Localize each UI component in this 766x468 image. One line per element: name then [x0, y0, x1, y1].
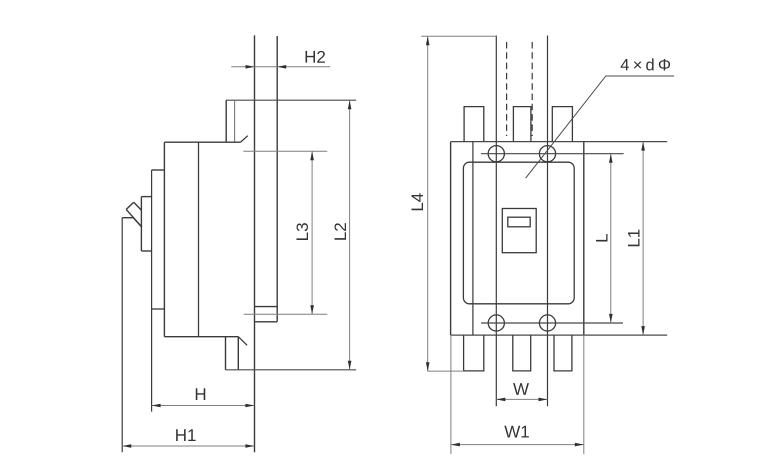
dimension H2 line: [231, 66, 330, 68]
top terminal stud 3: [552, 107, 572, 142]
hole center vertical line right (also W extension): [547, 36, 549, 407]
inner vertical rib line: [472, 142, 474, 336]
dimension W1 left extension line: [450, 335, 452, 454]
front cover top horizontal: [122, 217, 133, 219]
svg-text:H1: H1: [175, 426, 197, 445]
label H: [194, 385, 206, 404]
top terminal flange inner line: [234, 100, 236, 142]
hidden busbar dashed line left: [506, 42, 508, 136]
body top edge: [164, 141, 240, 143]
mounting hole top-right: [539, 146, 555, 162]
hidden busbar dashed line right: [531, 42, 533, 136]
label 4xdPhi: [620, 56, 674, 74]
handle window outer rectangle: [502, 209, 536, 253]
handle upper-left edge: [126, 202, 134, 209]
mounting hole bottom-left: [488, 315, 504, 331]
svg-text:H: H: [194, 385, 206, 404]
label H1: [175, 426, 197, 445]
dimension L1 line: [642, 142, 644, 336]
label L4 (rotated): [408, 193, 427, 212]
dimension W arrows: [496, 398, 547, 402]
dimension H line: [152, 405, 255, 407]
escutcheon left edge: [140, 197, 142, 251]
handle lower edge: [126, 209, 142, 227]
dimension W1 arrows: [451, 443, 584, 447]
body inner line: [198, 142, 200, 337]
front cover slant: [133, 218, 142, 227]
label L1 (rotated): [625, 229, 644, 248]
hole center vertical line left (also W extension): [495, 36, 497, 407]
dimension W1 right extension line: [583, 335, 585, 454]
shoulder step horizontal: [152, 169, 165, 171]
label L3 (rotated): [293, 222, 312, 241]
svg-text:L3: L3: [293, 222, 312, 241]
bottom foot chamfer: [238, 337, 247, 346]
mounting flange outline: [451, 142, 584, 336]
top flange chamfer: [241, 136, 248, 142]
label L2 (rotated): [331, 222, 350, 241]
breaker cover rounded rectangle: [463, 162, 574, 304]
svg-text:L1: L1: [625, 229, 644, 248]
svg-text:H2: H2: [304, 48, 326, 67]
bottom foot left edge: [225, 337, 227, 370]
bottom foot bottom edge (also L2 bottom extension): [226, 369, 357, 371]
mounting hole top-left: [488, 146, 504, 162]
svg-text:W1: W1: [504, 422, 530, 441]
label H2: [304, 48, 326, 67]
dimension L4 bottom extension line: [428, 370, 464, 372]
bottom hole center horizontal line (also L bottom extension): [481, 322, 623, 324]
label L (rotated): [593, 233, 612, 242]
label W: [513, 380, 529, 399]
wire busbar right line (side view vertical conductor): [276, 36, 278, 322]
dimension L1 arrows: [641, 142, 645, 336]
bottom terminal stud 1: [464, 335, 484, 371]
top terminal flange top edge (also L2 top extension): [226, 99, 356, 101]
mounting hole bottom-right: [539, 315, 555, 331]
handle window inner rectangle: [508, 217, 530, 227]
terminal strap upper edge: [255, 306, 278, 308]
bottom terminal stud 2: [513, 335, 531, 371]
dimension L line: [610, 154, 612, 323]
dimension H arrows: [152, 404, 255, 408]
shoulder rung: [152, 308, 165, 310]
dimension H2 arrows: [246, 65, 287, 69]
bottom terminal stud 3: [554, 335, 572, 371]
dimension W1 line: [451, 444, 584, 446]
svg-text:L2: L2: [331, 222, 350, 241]
leader line for 4xd holes: [526, 76, 675, 178]
svg-text:L: L: [593, 233, 612, 242]
dimension L4 line: [427, 36, 429, 371]
top hole center horizontal line (also L top extension): [481, 153, 624, 155]
svg-text:4×dΦ: 4×dΦ: [620, 56, 674, 74]
flange bottom edge with L1 bottom extension: [451, 334, 668, 336]
escutcheon bottom: [141, 250, 151, 252]
body bottom edge: [164, 336, 238, 338]
top terminal stud 2: [513, 107, 531, 142]
dimension L4 top extension line: [421, 35, 496, 37]
dimension L2 line: [349, 100, 351, 370]
svg-text:W: W: [513, 380, 529, 399]
top terminal stud 1: [464, 107, 484, 142]
dimension W line: [496, 398, 547, 400]
label W1: [504, 422, 530, 441]
dimension L3 bottom extension line: [244, 313, 328, 315]
wire busbar left line (side view vertical conductor): [254, 35, 256, 452]
bottom foot right edge: [237, 337, 239, 370]
dimension L2 arrows: [348, 100, 352, 370]
front cover vertical (also H1 left extension): [121, 218, 123, 453]
dimension L4 arrows: [426, 36, 430, 371]
dimension L arrows: [609, 154, 613, 323]
flange top edge with L1 top extension: [451, 141, 668, 143]
dimension H1 line: [122, 445, 254, 447]
body left edge: [163, 142, 165, 337]
shoulder vertical (also H left extension): [151, 170, 153, 412]
terminal strap lower edge: [255, 321, 278, 323]
escutcheon top: [141, 196, 151, 198]
dimension L3 line: [311, 151, 313, 314]
dimension H1 arrows: [122, 444, 254, 448]
dimension L3 arrows: [310, 151, 314, 314]
handle upper-right edge: [134, 202, 142, 210]
svg-text:L4: L4: [408, 193, 427, 212]
dimension L3 top extension line: [243, 150, 327, 152]
top terminal flange left edge: [225, 100, 227, 142]
